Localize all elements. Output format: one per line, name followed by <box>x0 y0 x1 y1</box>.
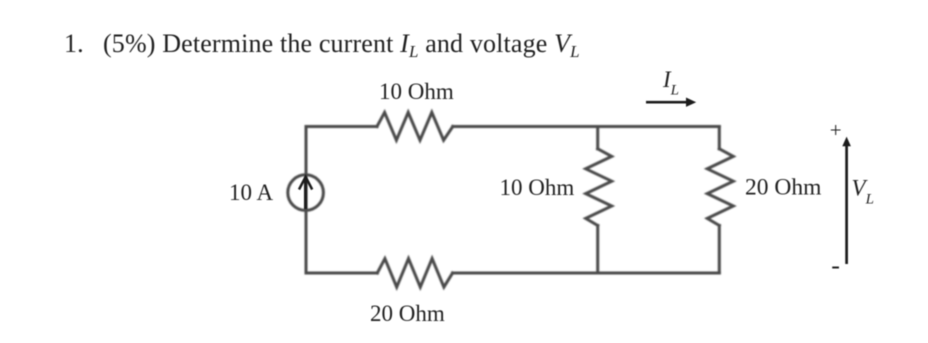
svg-text:(5%) Determine the current IL: (5%) Determine the current IL and voltag… <box>103 29 580 61</box>
title: problem statement <box>64 29 580 61</box>
svg-text:20 Ohm: 20 Ohm <box>745 175 821 201</box>
label: 10 Ohm (top resistor) <box>379 79 454 104</box>
svg-text:10 Ohm: 10 Ohm <box>500 175 575 200</box>
label: 20 Ohm (right resistor) <box>745 175 821 201</box>
arrow VL (far right, pointing up) <box>842 137 851 264</box>
wire: top right segment <box>453 125 720 128</box>
wire: bottom left segment <box>306 272 377 275</box>
svg-text:20 Ohm: 20 Ohm <box>370 301 445 326</box>
label: VL voltage name <box>852 176 874 208</box>
svg-text:+: + <box>830 118 842 142</box>
resistor R1 10 Ohm (top horizontal) <box>377 112 453 140</box>
label: plus sign <box>830 118 842 142</box>
label: minus sign <box>831 251 840 280</box>
current source I1 circle <box>288 175 324 211</box>
wire: middle branch top lead <box>596 127 599 149</box>
svg-text:VL: VL <box>852 176 874 208</box>
svg-text:10 A: 10 A <box>229 180 273 205</box>
label: 10 A (current source) <box>229 180 273 205</box>
arrow IL (top right, pointing right) <box>646 98 696 107</box>
resistor R4 20 Ohm (right vertical) <box>707 149 733 226</box>
resistor R2 20 Ohm (bottom horizontal) <box>377 259 452 288</box>
label: IL current name <box>662 67 679 99</box>
svg-text:-: - <box>831 251 840 280</box>
wire: left vertical branch <box>305 127 308 274</box>
wire: top left segment <box>306 125 377 128</box>
svg-text:1.: 1. <box>64 29 84 58</box>
current source arrow <box>299 177 312 209</box>
label: 10 Ohm (middle resistor) <box>500 175 575 200</box>
label: 20 Ohm (bottom resistor) <box>370 301 445 326</box>
wire: bottom right segment <box>453 272 720 275</box>
wire: middle branch bottom lead <box>596 226 599 274</box>
wire: right branch bottom lead <box>718 226 721 274</box>
wire: right branch top lead <box>718 127 721 149</box>
resistor R3 10 Ohm (middle vertical) <box>586 149 612 226</box>
svg-text:IL: IL <box>662 67 679 99</box>
svg-text:10 Ohm: 10 Ohm <box>379 79 454 104</box>
